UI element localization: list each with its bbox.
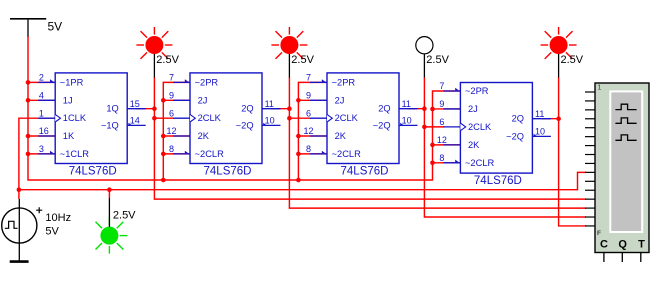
svg-text:4: 4 (39, 91, 44, 101)
svg-text:1: 1 (597, 82, 601, 91)
svg-text:9: 9 (439, 99, 444, 109)
svg-text:~2CLR: ~2CLR (465, 158, 494, 168)
power supply VCC 5V symbol (10, 18, 46, 20)
junction VCC bus U3 (296, 178, 301, 183)
svg-text:2.5V: 2.5V (291, 54, 314, 66)
wire VCC to FF1 pin 2 (28, 81, 56, 83)
svg-text:9: 9 (306, 91, 311, 101)
junction Q1 to next clock (152, 116, 157, 121)
junction VCC-FF1.16 (26, 134, 31, 139)
svg-text:74LS76D: 74LS76D (69, 166, 117, 178)
wire U4 Q output net (column 4) (541, 77, 586, 226)
junction VCC-U2.8 (161, 152, 166, 157)
svg-text:~2PR: ~2PR (195, 77, 219, 87)
junction Q3 to next clock (422, 125, 427, 130)
wire VCC to U4 pin 12 (433, 144, 462, 146)
probe X5 (lamp, 2.5V, lit green) (96, 218, 128, 254)
svg-text:7: 7 (306, 73, 311, 83)
wire VCC to U4 pin 9 (433, 108, 462, 110)
wire U1 Q to U2 CLK (154, 117, 174, 119)
probe X1 (lamp, 2.5V) (136, 27, 172, 59)
svg-text:1Q: 1Q (106, 104, 118, 114)
svg-text:8: 8 (306, 144, 311, 154)
junction VCC-U3.12 (296, 134, 301, 139)
wire U3 Q to U4 CLK (424, 126, 444, 128)
wire VCC to U2 pin 9 (163, 99, 191, 101)
svg-text:1: 1 (39, 108, 44, 118)
clock source V1 circle (2, 208, 37, 243)
wire clock to green probe X5 (108, 190, 110, 198)
svg-text:F: F (597, 230, 601, 237)
probe X4 (lamp, 2.5V) (541, 27, 577, 59)
svg-text:2K: 2K (335, 131, 347, 141)
wire VCC to FF1 pin 3 (28, 153, 56, 155)
probe X5 terminal (108, 198, 110, 227)
svg-text:7: 7 (439, 81, 444, 91)
wire VCC to U3 pin 8 (298, 153, 328, 155)
junction Q2 to next clock (287, 116, 292, 121)
svg-text:~1PR: ~1PR (60, 77, 84, 87)
probe X2 (lamp, 2.5V) (271, 27, 307, 59)
svg-text:2.5V: 2.5V (156, 54, 179, 66)
junction VCC-FF1.4 (26, 98, 31, 103)
svg-text:2CLK: 2CLK (198, 113, 222, 123)
wire VCC to U3 pin 9 (298, 99, 328, 101)
junction VCC bus U2 (161, 178, 166, 183)
junction clock source tap (17, 187, 22, 192)
wire clock source red stem (18, 190, 20, 199)
wire VCC stem (black) (27, 20, 29, 37)
junction U1.Q (152, 106, 157, 111)
junction VCC-U2.12 (161, 134, 166, 139)
probe X2 terminal (288, 54, 290, 78)
wire VCC riser for U2 (163, 82, 191, 180)
svg-text:2Q: 2Q (241, 104, 253, 114)
clock source plus sign (36, 207, 42, 213)
svg-text:12: 12 (166, 126, 176, 136)
junction VCC-U3.8 (296, 152, 301, 157)
svg-text:3: 3 (39, 144, 44, 154)
svg-text:T: T (638, 238, 645, 250)
svg-text:2: 2 (39, 73, 44, 83)
junction clock-probe X5 (107, 187, 112, 192)
wire 5V rail/bus (net VCC) (28, 36, 461, 180)
svg-text:74LS76D: 74LS76D (204, 166, 252, 178)
svg-text:14: 14 (130, 116, 140, 126)
wire U2 Q output net (column 2) (271, 77, 586, 208)
svg-text:~2CLR: ~2CLR (332, 149, 361, 159)
svg-text:2J: 2J (468, 104, 478, 114)
logic analyzer input pins 1-16 (585, 92, 595, 226)
svg-text:10: 10 (265, 116, 275, 126)
svg-text:11: 11 (402, 99, 411, 109)
svg-text:2K: 2K (468, 140, 480, 150)
JK flip-flop U2 74LS76D body (173, 73, 281, 164)
probe X1 terminal (153, 54, 155, 78)
junction VCC-FF1.3 (26, 152, 31, 157)
clock source V1 stem (18, 199, 20, 261)
svg-text:7: 7 (169, 73, 174, 83)
junction VCC-U4.8 (430, 161, 435, 166)
analyzer C/Q/T stubs (604, 253, 641, 262)
svg-text:~2PR: ~2PR (465, 86, 489, 96)
svg-text:8: 8 (439, 153, 444, 163)
svg-text:11: 11 (535, 109, 544, 119)
wire VCC to U3 pin 12 (298, 135, 328, 137)
svg-text:6: 6 (439, 117, 444, 127)
svg-text:C: C (600, 238, 608, 250)
wire U1 Q output net (column 1) (136, 77, 586, 199)
svg-text:1J: 1J (63, 95, 73, 105)
JK flip-flop U4 74LS76D body (443, 83, 551, 174)
svg-text:10: 10 (535, 127, 545, 137)
svg-text:2.5V: 2.5V (561, 54, 584, 66)
JK flip-flop U3 74LS76D body (310, 73, 418, 164)
wire U2 Q to U3 CLK (289, 117, 311, 119)
junction VCC-U4.9 (430, 107, 435, 112)
svg-text:2CLK: 2CLK (335, 113, 359, 123)
svg-text:15: 15 (130, 99, 140, 109)
svg-text:2CLK: 2CLK (468, 122, 492, 132)
svg-text:~2Q: ~2Q (506, 131, 524, 141)
wire VCC riser for U3 (298, 82, 328, 180)
probe X3 terminal (423, 54, 425, 77)
wire U3 Q output net (column 3) (408, 77, 586, 217)
probe X3 (lamp, 2.5V) (416, 37, 433, 54)
svg-text:1CLK: 1CLK (63, 113, 87, 123)
svg-text:~2PR: ~2PR (332, 77, 356, 87)
JK flip-flop U1 74LS76D body (38, 73, 146, 164)
svg-text:2K: 2K (198, 131, 210, 141)
wire VCC to FF1 pin 4 (28, 99, 56, 101)
svg-text:8: 8 (169, 144, 174, 154)
clock source V1 square-wave glyph (5, 221, 18, 228)
svg-text:2.5V: 2.5V (113, 210, 136, 222)
svg-text:9: 9 (169, 91, 174, 101)
svg-text:5V: 5V (45, 226, 59, 238)
svg-text:2Q: 2Q (378, 104, 390, 114)
analyzer waveform icons (615, 104, 636, 140)
U3 pin labels (303, 73, 411, 159)
svg-text:74LS76D: 74LS76D (341, 166, 389, 178)
U1 pin labels (39, 73, 140, 159)
svg-text:~1Q: ~1Q (101, 120, 119, 130)
svg-text:2Q: 2Q (512, 114, 524, 124)
probe X4 terminal (558, 54, 560, 78)
wire VCC to U4 pin 8 (433, 162, 462, 164)
junction U3.Q (422, 106, 427, 111)
svg-text:6: 6 (169, 108, 174, 118)
svg-text:12: 12 (437, 135, 447, 145)
svg-text:16: 16 (39, 126, 49, 136)
svg-text:~1CLR: ~1CLR (60, 149, 89, 159)
svg-text:5V: 5V (48, 19, 63, 33)
svg-text:12: 12 (303, 126, 313, 136)
svg-text:2J: 2J (335, 95, 345, 105)
svg-text:74LS76D: 74LS76D (474, 175, 522, 187)
junction VCC-U2.9 (161, 98, 166, 103)
svg-text:10Hz: 10Hz (45, 212, 71, 224)
wire VCC to U2 pin 12 (163, 135, 191, 137)
svg-text:~2CLR: ~2CLR (195, 149, 224, 159)
svg-text:~2Q: ~2Q (373, 120, 391, 130)
U4 pin labels (437, 81, 545, 168)
wire VCC to FF1 pin 16 (28, 135, 56, 137)
svg-text:2.5V: 2.5V (426, 54, 449, 66)
wire VCC to U2 pin 8 (163, 153, 191, 155)
svg-text:Q: Q (618, 238, 627, 250)
svg-text:6: 6 (306, 108, 311, 118)
svg-text:~2Q: ~2Q (236, 120, 254, 130)
svg-text:11: 11 (265, 99, 274, 109)
svg-text:2J: 2J (198, 95, 208, 105)
wire clock net (V1 to U1 CLK and analyzer) (19, 118, 586, 190)
junction U2.Q (287, 106, 292, 111)
logic analyzer XLA1 body (595, 83, 649, 253)
junction VCC-U3.9 (296, 98, 301, 103)
junction VCC-FF1.2 (26, 80, 31, 85)
ground (10, 260, 29, 263)
junction U4.Q (556, 116, 561, 121)
U2 pin labels (166, 73, 274, 159)
junction VCC-U4.12 (430, 143, 435, 148)
svg-text:10: 10 (402, 116, 412, 126)
svg-text:1K: 1K (63, 131, 75, 141)
